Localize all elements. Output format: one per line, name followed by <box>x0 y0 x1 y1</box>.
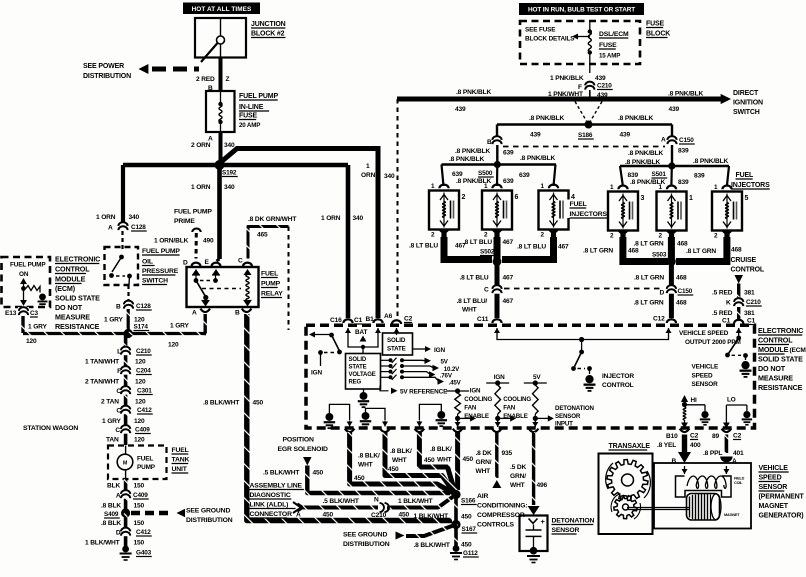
svg-text:S186: S186 <box>578 132 593 139</box>
svg-text:.5 RED: .5 RED <box>712 290 733 297</box>
ECM internal ground bracket to pin D6 <box>366 408 386 420</box>
svg-text:467: 467 <box>503 239 514 246</box>
svg-text:450: 450 <box>424 457 435 464</box>
svg-text:C412: C412 <box>136 529 151 536</box>
ECM top pin arcs <box>343 319 352 323</box>
svg-text:401: 401 <box>733 450 744 457</box>
svg-text:FUEL PUMP: FUEL PUMP <box>174 209 212 216</box>
svg-text:C: C <box>115 427 120 434</box>
svg-text:K: K <box>726 300 731 307</box>
svg-text:A: A <box>192 310 197 317</box>
svg-text:2: 2 <box>610 233 614 240</box>
svg-text:C210: C210 <box>597 83 612 90</box>
transaxle gear large <box>607 460 648 501</box>
voltage reg outputs 5V 10.2V .76V .45V <box>381 359 390 361</box>
svg-text:C1: C1 <box>747 318 756 325</box>
svg-text:S503: S503 <box>652 252 667 259</box>
svg-text:CONTROL: CONTROL <box>731 267 765 274</box>
svg-text:IGNITION: IGNITION <box>733 100 763 107</box>
vehicle speed output wire <box>496 328 498 336</box>
wire EGR to S166 <box>307 466 450 494</box>
svg-text:.8 PPL: .8 PPL <box>703 450 722 457</box>
svg-text:RELAY: RELAY <box>261 291 283 298</box>
svg-text:DIAGNOSTIC: DIAGNOSTIC <box>250 492 291 499</box>
svg-text:C210: C210 <box>371 512 387 519</box>
svg-text:RESISTANCE: RESISTANCE <box>758 383 803 392</box>
svg-text:C1: C1 <box>354 317 363 324</box>
svg-text:639: 639 <box>452 171 463 178</box>
svg-text:MODULE: MODULE <box>758 345 789 354</box>
svg-text:WHT: WHT <box>358 462 373 469</box>
svg-text:DO NOT: DO NOT <box>758 364 786 373</box>
banner HOT AT ALL TIMES <box>183 3 260 15</box>
svg-text:SENSOR: SENSOR <box>759 484 788 491</box>
wire injector5 drop <box>668 237 675 262</box>
svg-text:468: 468 <box>731 247 742 254</box>
svg-text:1 BLK/WHT: 1 BLK/WHT <box>398 498 433 505</box>
wire SEE POWER DISTRIBUTION (dashed, to arrow) <box>152 67 199 72</box>
svg-text:B: B <box>487 139 492 146</box>
wire switch to C128 pin B <box>127 285 129 301</box>
svg-text:2: 2 <box>714 233 718 240</box>
svg-text:S502: S502 <box>480 249 495 256</box>
svg-text:SENSOR: SENSOR <box>692 381 719 388</box>
svg-text:468: 468 <box>677 241 688 248</box>
wire 1 GRY horizontal run <box>23 332 206 335</box>
svg-text:C150: C150 <box>678 288 693 295</box>
svg-text:C12: C12 <box>653 316 665 323</box>
svg-text:2 ORN: 2 ORN <box>191 142 211 149</box>
svg-text:DISTRIBUTION: DISTRIBUTION <box>83 73 131 80</box>
svg-text:496: 496 <box>537 482 548 489</box>
svg-text:HI: HI <box>691 397 697 404</box>
wire B10/C2 to VSS pin B (thick, .8 YEL 400) <box>682 435 687 454</box>
IGN cooling fan enable branch (D12) <box>446 390 469 392</box>
svg-text:VEHICLE: VEHICLE <box>692 364 720 371</box>
dashed link C to D connectors <box>504 288 663 290</box>
ECM top pin arcs C11 C12 C1 <box>492 319 501 323</box>
svg-text:GRN/: GRN/ <box>510 473 526 480</box>
svg-text:20 AMP: 20 AMP <box>239 122 260 129</box>
svg-text:A6: A6 <box>384 313 393 320</box>
svg-text:OUTPUT 2000 PPM: OUTPUT 2000 PPM <box>685 339 741 346</box>
svg-text:A: A <box>661 137 666 144</box>
transaxle gear small <box>614 496 637 519</box>
wire S500 risers to injectors 1-3 <box>442 165 444 187</box>
VSS magnet cylinder <box>687 494 720 521</box>
connector C128 pin A <box>117 222 128 231</box>
svg-text:.8 LT GRN: .8 LT GRN <box>634 241 664 248</box>
svg-text:RESISTANCE: RESISTANCE <box>55 322 100 331</box>
svg-text:839: 839 <box>628 172 639 179</box>
svg-text:IGN: IGN <box>470 388 481 395</box>
svg-text:A: A <box>732 458 737 465</box>
wire C128 to oil pressure switch <box>121 231 123 249</box>
svg-text:467: 467 <box>503 298 514 305</box>
svg-text:.8 PNK/BLK: .8 PNK/BLK <box>456 89 492 96</box>
svg-text:POSITION: POSITION <box>283 437 315 444</box>
svg-text:15 AMP: 15 AMP <box>599 53 620 60</box>
wire 89/C2 to VSS pin A (.8 PPL 401) <box>725 435 729 454</box>
svg-text:120: 120 <box>134 317 145 324</box>
svg-text:5V: 5V <box>533 374 541 381</box>
svg-text:N: N <box>374 497 379 504</box>
A11 internal arrow and switch <box>311 334 330 336</box>
svg-text:ENABLE: ENABLE <box>464 413 489 420</box>
svg-text:439: 439 <box>455 106 466 113</box>
5V REFERENCE output <box>380 386 389 391</box>
svg-text:INPUT: INPUT <box>555 421 573 428</box>
fuel pump relay box <box>187 267 259 307</box>
svg-text:SPEED: SPEED <box>692 373 713 380</box>
svg-text:ON: ON <box>19 271 29 278</box>
wire D12 to S166 <box>455 432 460 490</box>
HI branch: arrow, resistor, ground <box>681 395 688 402</box>
svg-text:SENSOR: SENSOR <box>555 413 581 420</box>
svg-text:150: 150 <box>134 483 145 490</box>
svg-text:IGN: IGN <box>494 374 505 381</box>
splice S186 <box>585 121 593 129</box>
svg-text:LO: LO <box>727 397 736 404</box>
svg-text:D: D <box>116 530 121 537</box>
svg-text:ORN: ORN <box>361 172 376 179</box>
wire injector3 to S502 trunk <box>502 237 554 260</box>
svg-text:1 GRY: 1 GRY <box>170 323 190 330</box>
svg-text:.8 LT BLU/: .8 LT BLU/ <box>457 298 488 305</box>
wire C16 drop (1 ORN 340) <box>346 165 351 318</box>
wire .8 DK GRN/WHT 465 relay C to A11 <box>248 227 289 259</box>
wire S174 to fuel tank column <box>124 334 128 446</box>
relay bottom pin arcs and labels A B <box>200 309 210 312</box>
svg-text:DISTRIBUTION: DISTRIBUTION <box>343 541 390 548</box>
svg-text:450: 450 <box>399 512 410 519</box>
svg-text:1: 1 <box>659 184 663 191</box>
svg-text:VEHICLE SPEED: VEHICLE SPEED <box>679 330 729 337</box>
svg-text:C1: C1 <box>722 318 731 325</box>
svg-text:BLOCK DETAILS: BLOCK DETAILS <box>525 36 575 43</box>
svg-text:COIL: COIL <box>734 481 743 485</box>
wire 2 RED 340 junction block to fuse <box>219 58 223 92</box>
svg-text:150: 150 <box>134 520 145 527</box>
svg-text:C11: C11 <box>477 316 489 323</box>
wire trunk 1 ORN 340 via diagonal to B1 drop <box>221 149 378 319</box>
splice S167 <box>451 520 460 529</box>
svg-text:150: 150 <box>134 540 145 547</box>
svg-text:WHT: WHT <box>392 457 407 464</box>
svg-text:2: 2 <box>659 233 663 240</box>
svg-text:1 ORN: 1 ORN <box>96 214 116 221</box>
5V detonation branch (F9) <box>524 382 547 384</box>
svg-text:340: 340 <box>353 215 364 222</box>
svg-text:TANK: TANK <box>172 457 190 464</box>
svg-text:2: 2 <box>541 232 545 239</box>
svg-text:C2: C2 <box>733 433 742 440</box>
svg-text:C210: C210 <box>136 348 151 355</box>
detonation sensor feed arrow <box>528 506 540 515</box>
svg-text:439: 439 <box>620 132 631 139</box>
svg-text:B: B <box>672 458 677 465</box>
svg-text:C412: C412 <box>137 407 152 414</box>
svg-text:1: 1 <box>610 184 614 191</box>
svg-text:IN-LINE: IN-LINE <box>239 104 264 111</box>
wire trunk left end drop to ECM pin A6 <box>397 99 399 319</box>
svg-text:.8 PNK/BLK: .8 PNK/BLK <box>625 159 661 166</box>
relay pin arcs D E C <box>192 263 201 267</box>
wire ALDL to S166 with C210 break <box>303 506 378 510</box>
svg-text:S192: S192 <box>222 170 237 177</box>
svg-text:.8 BLK/WHT: .8 BLK/WHT <box>414 542 450 549</box>
fuse block internal arrow <box>578 36 590 38</box>
svg-text:1: 1 <box>714 184 718 191</box>
svg-text:340: 340 <box>384 173 395 180</box>
wire injector1 to S502 trunk <box>444 237 492 260</box>
svg-text:.5 RED: .5 RED <box>712 310 733 317</box>
detonation sensor box <box>520 516 548 552</box>
svg-text:CONTROLS: CONTROLS <box>477 522 515 529</box>
wire prime to relay pin D <box>195 233 198 259</box>
connector C204 pin F <box>120 366 131 375</box>
wire cruise to C210 K <box>737 284 740 299</box>
svg-text:STATION WAGON: STATION WAGON <box>23 425 78 432</box>
svg-text:C409: C409 <box>133 492 148 499</box>
svg-text:DETONATION: DETONATION <box>555 405 595 412</box>
svg-text:JUNCTION: JUNCTION <box>251 21 286 28</box>
solid state voltage reg box <box>346 354 381 390</box>
svg-text:CRUISE: CRUISE <box>731 257 757 264</box>
svg-text:S409: S409 <box>104 511 119 518</box>
svg-text:1: 1 <box>431 183 435 190</box>
svg-text:MEASURE: MEASURE <box>758 374 793 383</box>
svg-text:DO NOT: DO NOT <box>55 303 83 312</box>
fuel pump in-line fuse <box>206 91 235 132</box>
svg-text:C301: C301 <box>137 388 152 395</box>
cooling fan enable branch (C1) <box>486 382 509 384</box>
svg-text:C150: C150 <box>679 137 694 144</box>
svg-text:450: 450 <box>388 466 399 473</box>
svg-text:CONTROL: CONTROL <box>55 265 90 274</box>
svg-text:D: D <box>183 260 188 267</box>
svg-text:(ECM): (ECM) <box>55 284 76 293</box>
svg-text:TRANSAXLE: TRANSAXLE <box>609 443 651 450</box>
ECM bottom pin cups B10 89 <box>680 429 690 432</box>
svg-text:CONTROL: CONTROL <box>602 382 634 389</box>
solid state box (small) <box>396 328 398 335</box>
svg-text:3: 3 <box>641 195 645 202</box>
svg-text:LINK (ALDL): LINK (ALDL) <box>250 502 289 509</box>
svg-text:C2: C2 <box>690 433 699 440</box>
svg-text:WHT: WHT <box>476 468 491 475</box>
svg-text:935: 935 <box>502 450 513 457</box>
svg-text:IGN: IGN <box>311 370 322 377</box>
cruise control feed arrow <box>734 275 743 284</box>
C1 internal switch and ground <box>738 328 740 336</box>
svg-text:AIR: AIR <box>477 493 488 500</box>
svg-text:.8 LT GRN: .8 LT GRN <box>634 275 664 282</box>
dashed link between connector halves B-A <box>503 146 665 148</box>
svg-text:B10: B10 <box>666 433 678 440</box>
injector 6 (cyl 5) <box>712 192 742 231</box>
svg-text:GENERATOR): GENERATOR) <box>759 513 804 520</box>
svg-text:400: 400 <box>690 442 701 449</box>
svg-text:C210: C210 <box>746 299 761 306</box>
svg-text:VEHICLE: VEHICLE <box>759 465 789 472</box>
svg-text:PUMP: PUMP <box>261 281 281 288</box>
svg-text:2 TAN: 2 TAN <box>101 399 119 406</box>
svg-text:S174: S174 <box>134 324 149 331</box>
junction block #2 <box>195 18 246 58</box>
svg-text:PRIME: PRIME <box>174 218 195 225</box>
svg-text:FUEL PUMP: FUEL PUMP <box>142 248 180 255</box>
svg-text:1 PNK/BLK: 1 PNK/BLK <box>550 75 584 82</box>
ground G403 <box>122 546 129 553</box>
svg-text:.8 LT GRN: .8 LT GRN <box>583 248 613 255</box>
svg-text:120: 120 <box>135 379 146 386</box>
svg-text:.8 PNK/BLK: .8 PNK/BLK <box>618 115 654 122</box>
wire fuse to S192 <box>219 132 223 165</box>
splice S192 <box>215 160 225 170</box>
svg-text:450: 450 <box>313 470 324 477</box>
svg-text:.8 PNK/BLK: .8 PNK/BLK <box>628 150 664 157</box>
svg-text:.8 BLK: .8 BLK <box>101 520 121 527</box>
wire S192 to relay pin E <box>217 165 222 259</box>
svg-text:GRN/: GRN/ <box>476 459 492 466</box>
svg-text:FIELD: FIELD <box>734 477 745 481</box>
svg-text:DSL/ECM: DSL/ECM <box>599 31 629 38</box>
svg-text:C: C <box>484 287 489 294</box>
wire A12 to S166 <box>350 432 453 493</box>
svg-text:B: B <box>116 304 121 311</box>
svg-text:.45V: .45V <box>449 380 462 387</box>
splice S503 <box>667 257 676 266</box>
wire S502 to C11 <box>495 262 500 319</box>
svg-text:639: 639 <box>519 172 530 179</box>
svg-text:SWITCH: SWITCH <box>733 109 760 116</box>
detonation sensor ground <box>530 547 538 555</box>
svg-text:.8 PNK/BLK: .8 PNK/BLK <box>668 91 704 98</box>
svg-text:439: 439 <box>530 132 541 139</box>
svg-text:450: 450 <box>323 512 334 519</box>
svg-text:340: 340 <box>224 184 235 191</box>
svg-text:(ECM): (ECM) <box>790 347 806 354</box>
svg-text:1 GRY: 1 GRY <box>104 317 124 324</box>
svg-text:COOLING: COOLING <box>503 396 531 403</box>
svg-text:.8 LT BLU: .8 LT BLU <box>460 275 489 282</box>
svg-text:639: 639 <box>503 150 514 157</box>
svg-text:120: 120 <box>168 342 179 349</box>
svg-text:CONNECTOR: CONNECTOR <box>250 511 293 518</box>
svg-text:E13: E13 <box>5 310 17 317</box>
svg-text:2: 2 <box>431 232 435 239</box>
svg-text:SOLID: SOLID <box>387 337 406 344</box>
svg-text:ELECTRONIC: ELECTRONIC <box>55 255 100 264</box>
svg-text:FUEL: FUEL <box>261 271 278 278</box>
svg-text:FUEL: FUEL <box>736 172 755 179</box>
wire S192 horizontal run 1 ORN (left to C128, right to C16) <box>123 163 348 168</box>
svg-text:.5 BLK/WHT: .5 BLK/WHT <box>323 498 359 505</box>
wire injector2 drop <box>494 237 501 260</box>
label FUEL INJECTORS (middle) <box>567 200 609 219</box>
fuel pump oil pressure switch box (dashed) <box>105 247 139 285</box>
svg-text:C16: C16 <box>330 317 342 324</box>
svg-text:S166: S166 <box>461 498 476 505</box>
connector C409 pin C <box>120 425 131 434</box>
svg-text:.5 BLK/WHT: .5 BLK/WHT <box>263 470 299 477</box>
wire S409 to G403 <box>124 513 128 548</box>
injector 1 (cyl 2) <box>429 191 459 230</box>
svg-text:SOLID STATE: SOLID STATE <box>55 294 100 303</box>
splice S500 <box>494 161 501 168</box>
svg-text:A: A <box>296 512 301 519</box>
svg-text:C: C <box>116 408 121 415</box>
svg-text:839: 839 <box>678 148 689 155</box>
fuel pump motor <box>125 446 127 455</box>
ECM fuel-pump-on indicator box (dashed) <box>2 257 51 307</box>
svg-text:450: 450 <box>461 542 472 549</box>
svg-text:PUMP: PUMP <box>137 464 156 471</box>
svg-text:467: 467 <box>558 244 569 251</box>
wire S500 horizontal run <box>442 163 557 165</box>
svg-text:.8 BLK/: .8 BLK/ <box>390 448 412 455</box>
wire ignition trunk .8 PNK/BLK 439 <box>397 97 723 102</box>
svg-text:FUSE: FUSE <box>239 113 258 120</box>
injector 5 (cyl 1) <box>657 192 687 231</box>
svg-text:5V REFERENCE: 5V REFERENCE <box>400 388 448 395</box>
fuel pump on internals: arrow, node, resistor, ground <box>20 278 27 284</box>
see ground distribution arrow (S409) <box>131 511 173 516</box>
svg-text:MAGNET: MAGNET <box>724 513 740 517</box>
wire A C150 to S501 <box>671 145 673 164</box>
splice S502 <box>493 257 502 266</box>
svg-text:SEE POWER: SEE POWER <box>83 63 124 70</box>
svg-text:C3: C3 <box>30 310 38 317</box>
detonation sensor internals <box>529 519 538 524</box>
svg-text:1 BLK/WHT: 1 BLK/WHT <box>85 540 120 547</box>
wire B to S500 <box>496 145 498 164</box>
svg-text:FUEL: FUEL <box>172 447 189 454</box>
injector control switch <box>581 340 583 352</box>
wire E13 to 1 GRY run <box>21 316 24 333</box>
svg-text:S500: S500 <box>478 170 493 177</box>
svg-text:1 ORN: 1 ORN <box>321 215 341 222</box>
wire D12 to A/C (935 DK GRN/WHT) <box>495 432 498 478</box>
svg-text:450: 450 <box>463 456 474 463</box>
VSS internal arrows <box>684 466 686 474</box>
wire C210K to ECM C1 <box>737 307 740 319</box>
svg-text:BLOCK: BLOCK <box>646 31 670 38</box>
svg-text:COOLING: COOLING <box>464 396 492 403</box>
svg-text:STATE: STATE <box>387 346 406 353</box>
fuel pump prime connector <box>192 229 200 232</box>
svg-text:.8 BLK: .8 BLK <box>101 503 121 510</box>
svg-text:SPEED: SPEED <box>759 475 782 482</box>
injector 2 (cyl 6) <box>482 191 512 230</box>
svg-text:DIRECT: DIRECT <box>733 90 759 97</box>
svg-text:FUEL: FUEL <box>570 201 587 208</box>
svg-text:CONDITIONING:: CONDITIONING: <box>477 503 528 510</box>
relay internal bottom arrows <box>202 301 210 307</box>
svg-text:M: M <box>123 461 128 467</box>
wire injector6 to S503 trunk <box>676 237 727 262</box>
connector C150 pin A (right drop of S186 run) <box>671 125 673 137</box>
svg-text:WHT: WHT <box>437 457 452 464</box>
wire tank to S409 <box>124 479 128 513</box>
svg-text:L: L <box>117 349 121 356</box>
svg-text:120: 120 <box>135 359 146 366</box>
connector C412 pin C <box>120 406 131 415</box>
svg-text:FUEL: FUEL <box>137 456 153 463</box>
svg-text:FUSE: FUSE <box>599 42 617 49</box>
splice S174 <box>124 329 133 338</box>
